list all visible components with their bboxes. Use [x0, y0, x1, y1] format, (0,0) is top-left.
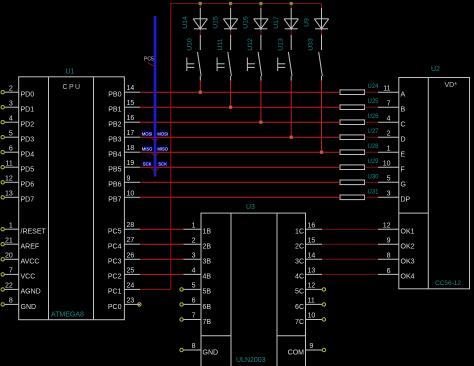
- svg-text:PC0: PC0: [108, 304, 122, 311]
- wire switch U11 to PB1 row: [230, 81, 232, 108]
- svg-text:4: 4: [9, 115, 13, 122]
- svg-text:GND: GND: [21, 304, 37, 311]
- wire switch U12 to PB2 row: [260, 81, 262, 123]
- svg-text:PB0: PB0: [108, 92, 121, 99]
- wire resistor U30 to U2 pin 5: [365, 181, 379, 183]
- svg-text:CPU: CPU: [63, 84, 82, 91]
- wire diode U14 to switch U10: [199, 30, 201, 35]
- wire resistor U29 to U2 pin 10: [365, 166, 379, 168]
- wire resistor U31 to U2 pin 3: [365, 196, 379, 198]
- switch U11: [217, 35, 231, 81]
- svg-text:AVCC: AVCC: [21, 259, 40, 266]
- svg-text:3: 3: [387, 191, 391, 198]
- U3 pin 7 7B: [184, 313, 212, 326]
- display U2 (CC56-12) body: [399, 78, 470, 289]
- U2 pin 6 OK4: [378, 268, 415, 281]
- U1 pin 14 PB0: [108, 85, 140, 98]
- svg-text:OK3: OK3: [401, 259, 415, 266]
- U1 pin 17 PB3: [108, 130, 140, 143]
- svg-text:4: 4: [387, 116, 391, 123]
- svg-text:U25: U25: [368, 99, 380, 105]
- svg-text:U26: U26: [368, 114, 380, 120]
- svg-text:21: 21: [5, 237, 13, 244]
- diode U16: [254, 8, 268, 30]
- svg-text:PB1: PB1: [108, 107, 121, 114]
- U3 pin 8 GND: [184, 343, 219, 356]
- svg-text:MISO: MISO: [142, 146, 153, 151]
- wire PC1 horizontal: [140, 288, 171, 290]
- U1 pin 20 AVCC: [1, 253, 39, 266]
- wire PB3 row to resistor U27: [140, 136, 340, 138]
- svg-text:PB2: PB2: [108, 122, 121, 129]
- U3 pin 3 3B: [184, 253, 212, 266]
- svg-text:11: 11: [308, 298, 315, 305]
- svg-text:SCK: SCK: [143, 161, 152, 166]
- svg-text:U29: U29: [368, 159, 380, 165]
- svg-text:12: 12: [308, 283, 316, 290]
- U1 pin 4 PD2: [1, 115, 34, 128]
- wire rail to diode U17: [290, 4, 292, 9]
- junction on top rail at column 4: [290, 2, 293, 5]
- U1 pin 10 PB7: [108, 190, 140, 203]
- pin 9 open terminal: [322, 348, 325, 351]
- U3 pin 12 5C: [295, 283, 322, 296]
- svg-text:MOSI: MOSI: [142, 131, 153, 136]
- svg-text:27: 27: [127, 237, 135, 244]
- wire resistor U24 to U2 pin 11: [365, 91, 379, 93]
- svg-text:VCC: VCC: [21, 274, 36, 281]
- svg-text:PC5: PC5: [108, 229, 122, 236]
- U1 pin 23 PC0: [108, 297, 140, 310]
- svg-text:PD7: PD7: [21, 197, 35, 204]
- svg-text:4C: 4C: [295, 274, 304, 281]
- svg-text:/RESET: /RESET: [21, 229, 47, 236]
- resistor U25: [340, 99, 379, 109]
- svg-text:ATMEGA8: ATMEGA8: [51, 312, 84, 319]
- svg-text:1B: 1B: [203, 229, 212, 236]
- svg-text:OK1: OK1: [401, 229, 415, 236]
- svg-text:U10: U10: [187, 38, 194, 51]
- svg-text:6C: 6C: [295, 304, 304, 311]
- resistor U31: [340, 189, 379, 199]
- svg-text:U1: U1: [66, 69, 75, 76]
- wire U3 2C to U2 OK2: [322, 243, 378, 245]
- wire diode U15 to switch U11: [230, 30, 232, 35]
- svg-text:6: 6: [9, 145, 13, 152]
- svg-text:VD*: VD*: [445, 82, 458, 89]
- svg-text:1: 1: [9, 222, 13, 229]
- svg-text:16: 16: [127, 115, 135, 122]
- svg-text:U14: U14: [182, 16, 189, 29]
- net label SCK right of bus: [158, 161, 168, 166]
- wire U3 3C to U2 OK3: [322, 258, 378, 260]
- svg-text:U9: U9: [303, 18, 310, 27]
- svg-text:2B: 2B: [203, 244, 212, 251]
- svg-text:22: 22: [5, 283, 13, 290]
- bus entry at top: [147, 63, 155, 67]
- svg-text:13: 13: [308, 268, 316, 275]
- pin 8 open terminal: [180, 348, 183, 351]
- svg-text:19: 19: [127, 160, 135, 167]
- svg-text:U30: U30: [368, 174, 380, 180]
- svg-text:26: 26: [127, 252, 135, 259]
- net label MISO right of bus: [157, 146, 168, 151]
- svg-text:COM: COM: [288, 349, 305, 356]
- switch U33: [319, 35, 323, 81]
- switch U10: [187, 35, 201, 81]
- U1 pin 27 PC4: [108, 237, 140, 250]
- svg-text:MOSI: MOSI: [157, 131, 168, 136]
- U2 pin 4 segment C: [378, 116, 406, 129]
- svg-text:U13: U13: [277, 38, 284, 51]
- svg-text:7B: 7B: [203, 319, 212, 326]
- wire PB6 row to resistor U30: [140, 181, 340, 183]
- svg-text:PB5: PB5: [108, 167, 121, 174]
- svg-text:PB7: PB7: [108, 197, 121, 204]
- svg-text:5: 5: [9, 130, 13, 137]
- driver U3 (ULN2003) body: [201, 213, 306, 366]
- svg-text:14: 14: [127, 85, 135, 92]
- CPU U1 (ATMEGA8) body: [19, 77, 125, 320]
- svg-text:20: 20: [5, 253, 13, 260]
- U3 pin 10 7C: [295, 313, 322, 326]
- U1 pin 7 VCC: [1, 268, 35, 281]
- svg-text:1: 1: [192, 222, 196, 229]
- net label MOSI right of bus: [157, 131, 168, 136]
- svg-text:6: 6: [192, 298, 196, 305]
- wire PC1 vertical riser: [170, 4, 172, 290]
- wire PC5 to U3 1B: [140, 228, 184, 230]
- svg-text:PD3: PD3: [21, 137, 35, 144]
- U2 pin 1 segment E: [378, 146, 406, 159]
- svg-text:U33: U33: [308, 38, 315, 51]
- svg-text:6B: 6B: [203, 304, 212, 311]
- wire resistor U27 to U2 pin 2: [365, 136, 379, 138]
- svg-text:PC3: PC3: [108, 259, 122, 266]
- resistor U30: [340, 174, 379, 184]
- svg-text:25: 25: [127, 267, 135, 274]
- svg-text:17: 17: [127, 130, 135, 137]
- wire switch U10 to PB0 row: [199, 81, 201, 93]
- svg-text:AREF: AREF: [21, 244, 40, 251]
- open terminal pin 11: [322, 303, 325, 306]
- diode U14: [193, 8, 207, 30]
- wire PB1 row to resistor U25: [140, 106, 340, 108]
- wire diode U16 to switch U12: [260, 30, 262, 35]
- U1 pin 3 PD1: [1, 100, 34, 113]
- svg-text:U15: U15: [212, 16, 219, 29]
- wire PB7 row to resistor U31: [140, 196, 340, 198]
- U3 pin 5 5B: [184, 283, 212, 296]
- junction at PB2 row column 3: [259, 121, 262, 124]
- wire PC3 to U3 3B: [140, 258, 184, 260]
- svg-text:DP: DP: [401, 197, 411, 204]
- junction at PB1 row column 2: [229, 106, 232, 109]
- wire resistor U25 to U2 pin 7: [365, 106, 379, 108]
- open terminal pin 12: [322, 288, 325, 291]
- bus ISP (blue): [154, 16, 157, 177]
- junction at PB0 row column 1: [199, 91, 202, 94]
- open terminal pin 5: [180, 288, 183, 291]
- wire PB0 row to resistor U24: [140, 91, 340, 93]
- wire top anode rail: [170, 3, 322, 5]
- U3 pin 13 4C: [295, 268, 322, 281]
- svg-text:5B: 5B: [203, 289, 212, 296]
- junction at PB3 row column 4: [290, 136, 293, 139]
- svg-text:13: 13: [5, 191, 13, 198]
- svg-text:2: 2: [387, 131, 391, 138]
- svg-text:10: 10: [308, 313, 316, 320]
- U1 pin 8 GND: [1, 298, 36, 311]
- net label SCK left of bus: [142, 161, 152, 166]
- svg-text:PC1: PC1: [108, 289, 122, 296]
- U2 pin 11 segment A: [378, 86, 406, 99]
- wire PC2 to U3 4B: [140, 273, 184, 275]
- switch U12: [247, 35, 261, 81]
- U1 pin 15 PB1: [108, 100, 140, 113]
- svg-text:3: 3: [192, 253, 196, 260]
- junction on top rail at column 3: [259, 2, 262, 5]
- svg-text:ULN2003: ULN2003: [236, 357, 266, 364]
- U2 pin 10 segment F: [378, 161, 405, 174]
- switch U13: [278, 35, 292, 81]
- U1 pin 21 AREF: [1, 237, 39, 250]
- U3 pin 6 6B: [184, 298, 212, 311]
- svg-text:U24: U24: [368, 84, 380, 90]
- svg-text:B: B: [401, 107, 406, 114]
- wire PB4 row to resistor U28: [140, 151, 340, 153]
- U2 pin 12 OK1: [378, 223, 415, 236]
- wire rail to diode U9: [321, 4, 323, 9]
- svg-text:PD2: PD2: [21, 122, 35, 129]
- U1 pin 19 PB5: [108, 160, 140, 173]
- svg-text:7: 7: [387, 101, 391, 108]
- svg-text:E: E: [401, 152, 406, 159]
- U2 pin 5 segment G: [378, 176, 406, 189]
- svg-text:C: C: [401, 122, 406, 129]
- wire PB5 row to resistor U29: [140, 166, 340, 168]
- svg-text:CC56-12: CC56-12: [435, 280, 461, 287]
- svg-text:24: 24: [127, 282, 135, 289]
- svg-text:4: 4: [192, 268, 196, 275]
- U1 pin 18 PB4: [108, 145, 140, 158]
- wire PB2 row to resistor U26: [140, 121, 340, 123]
- svg-text:SCK: SCK: [158, 161, 167, 166]
- svg-text:F: F: [401, 167, 405, 174]
- resistor U24: [340, 84, 379, 94]
- wire resistor U28 to U2 pin 1: [365, 151, 379, 153]
- U3 pin 14 3C: [295, 253, 322, 266]
- svg-text:9: 9: [387, 238, 391, 245]
- U3 pin 16 1C: [295, 222, 322, 235]
- U1 pin 5 PD3: [1, 130, 34, 143]
- svg-text:9: 9: [127, 175, 131, 182]
- svg-text:9: 9: [310, 343, 314, 350]
- svg-text:U17: U17: [273, 16, 280, 29]
- svg-text:15: 15: [127, 100, 135, 107]
- junction at PB4 row column 5: [320, 151, 323, 154]
- wire U3 4C to U2 OK4: [322, 273, 378, 275]
- svg-text:U11: U11: [217, 38, 224, 50]
- svg-text:8: 8: [192, 343, 196, 350]
- svg-text:2: 2: [9, 85, 13, 92]
- svg-text:PD0: PD0: [21, 92, 35, 99]
- U1 pin 22 AGND: [1, 283, 41, 296]
- bus entry SCK: [151, 167, 160, 172]
- svg-text:3B: 3B: [203, 259, 212, 266]
- svg-text:10: 10: [383, 161, 391, 168]
- resistor U29: [340, 159, 379, 169]
- svg-text:5: 5: [387, 176, 391, 183]
- resistor U27: [340, 129, 379, 139]
- svg-text:12: 12: [5, 176, 13, 183]
- U2 pin 2 segment D: [378, 131, 406, 144]
- svg-text:PC2: PC2: [108, 274, 122, 281]
- svg-text:2C: 2C: [295, 244, 304, 251]
- wire resistor U26 to U2 pin 4: [365, 121, 379, 123]
- svg-text:3C: 3C: [295, 259, 304, 266]
- svg-text:U27: U27: [368, 129, 380, 135]
- junction on top rail at column 2: [229, 2, 232, 5]
- wire rail to diode U14: [199, 4, 201, 9]
- svg-text:11: 11: [383, 86, 390, 93]
- svg-text:8: 8: [9, 298, 13, 305]
- resistor U28: [340, 144, 379, 154]
- U1 pin 1 /RESET: [1, 222, 47, 235]
- wire switch U13 to PB3 row: [290, 81, 292, 138]
- wire rail to diode U16: [260, 4, 262, 9]
- open terminal pin 6: [180, 303, 183, 306]
- bus entry MISO: [151, 152, 160, 157]
- U2 pin 8 OK3: [378, 253, 415, 266]
- svg-text:15: 15: [308, 237, 316, 244]
- svg-text:16: 16: [308, 222, 316, 229]
- svg-text:1: 1: [387, 146, 391, 153]
- U2 pin 9 OK2: [378, 238, 415, 251]
- U1 pin 16 PB2: [108, 115, 140, 128]
- junction on top rail at column 1: [199, 2, 202, 5]
- wire U3 1C to U2 OK1: [322, 228, 378, 230]
- svg-text:PD6: PD6: [21, 182, 35, 189]
- svg-text:U12: U12: [247, 38, 254, 51]
- U1 pin 11 PD5: [1, 160, 34, 173]
- svg-text:12: 12: [383, 223, 391, 230]
- U1 pin 12 PD6: [1, 176, 34, 189]
- U1 pin 24 PC1: [108, 282, 140, 295]
- U1 pin 28 PC5: [108, 222, 140, 235]
- svg-text:U28: U28: [368, 144, 380, 150]
- svg-text:PB6: PB6: [108, 182, 121, 189]
- svg-text:5: 5: [192, 283, 196, 290]
- svg-text:GND: GND: [203, 349, 219, 356]
- wire diode U9 to switch U33: [321, 30, 323, 35]
- svg-text:10: 10: [127, 190, 135, 197]
- svg-text:U3: U3: [246, 204, 255, 211]
- svg-text:U31: U31: [368, 189, 380, 195]
- U2 pin 7 segment B: [378, 101, 406, 114]
- U3 pin 9 COM: [288, 343, 322, 356]
- svg-text:U2: U2: [431, 66, 440, 73]
- svg-text:4B: 4B: [203, 274, 212, 281]
- svg-text:A: A: [401, 92, 406, 99]
- svg-text:3: 3: [9, 100, 13, 107]
- diode U15: [223, 8, 237, 30]
- svg-text:G: G: [401, 182, 406, 189]
- U3 pin 15 2C: [295, 237, 322, 250]
- resistor U26: [340, 114, 379, 124]
- svg-text:2: 2: [192, 237, 196, 244]
- U1 pin 13 PD7: [1, 191, 34, 204]
- svg-text:6: 6: [387, 268, 391, 275]
- svg-text:7: 7: [192, 313, 196, 320]
- wire diode U17 to switch U13: [290, 30, 292, 35]
- svg-text:MISO: MISO: [157, 146, 168, 151]
- svg-text:OK2: OK2: [401, 244, 415, 251]
- U3 pin 11 6C: [295, 298, 322, 311]
- svg-text:23: 23: [127, 297, 135, 304]
- svg-text:PC5: PC5: [144, 57, 154, 63]
- svg-text:PD4: PD4: [21, 152, 35, 159]
- open terminal pin 7: [180, 318, 183, 321]
- diode U17: [284, 8, 298, 30]
- svg-text:7C: 7C: [295, 319, 304, 326]
- net label MISO left of bus: [142, 146, 153, 151]
- wire PC4 to U3 2B: [140, 243, 184, 245]
- open terminal pin 10: [322, 318, 325, 321]
- wire switch U33 to PB4 row: [321, 81, 323, 153]
- svg-text:1C: 1C: [295, 229, 304, 236]
- svg-text:PB4: PB4: [108, 152, 121, 159]
- U3 pin 1 1B: [184, 222, 212, 235]
- svg-text:PB3: PB3: [108, 137, 121, 144]
- svg-text:11: 11: [6, 160, 13, 167]
- bus entry MOSI: [151, 137, 160, 142]
- svg-text:PD5: PD5: [21, 167, 35, 174]
- U1 pin 6 PD4: [1, 145, 34, 158]
- U3 pin 4 4B: [184, 268, 212, 281]
- svg-text:D: D: [401, 137, 406, 144]
- net label MOSI left of bus: [142, 131, 153, 136]
- U3 pin 2 2B: [184, 237, 212, 250]
- svg-text:28: 28: [127, 222, 135, 229]
- U1 pin 26 PC3: [108, 252, 140, 265]
- wire rail to diode U15: [230, 4, 232, 9]
- U1 pin 25 PC2: [108, 267, 140, 280]
- U1 pin 9 PB6: [108, 175, 140, 188]
- svg-text:14: 14: [308, 253, 316, 260]
- svg-text:PC4: PC4: [108, 244, 122, 251]
- svg-text:7: 7: [9, 268, 13, 275]
- svg-text:18: 18: [127, 145, 135, 152]
- U1 pin 2 PD0: [1, 85, 34, 98]
- U2 pin 3 segment DP: [378, 191, 411, 204]
- svg-text:PD1: PD1: [21, 107, 35, 114]
- diode U9: [314, 8, 328, 30]
- svg-text:OK4: OK4: [401, 274, 415, 281]
- svg-text:AGND: AGND: [21, 289, 41, 296]
- svg-text:8: 8: [387, 253, 391, 260]
- svg-text:U16: U16: [243, 16, 250, 29]
- svg-text:5C: 5C: [295, 289, 304, 296]
- PC0 open terminal: [138, 303, 141, 306]
